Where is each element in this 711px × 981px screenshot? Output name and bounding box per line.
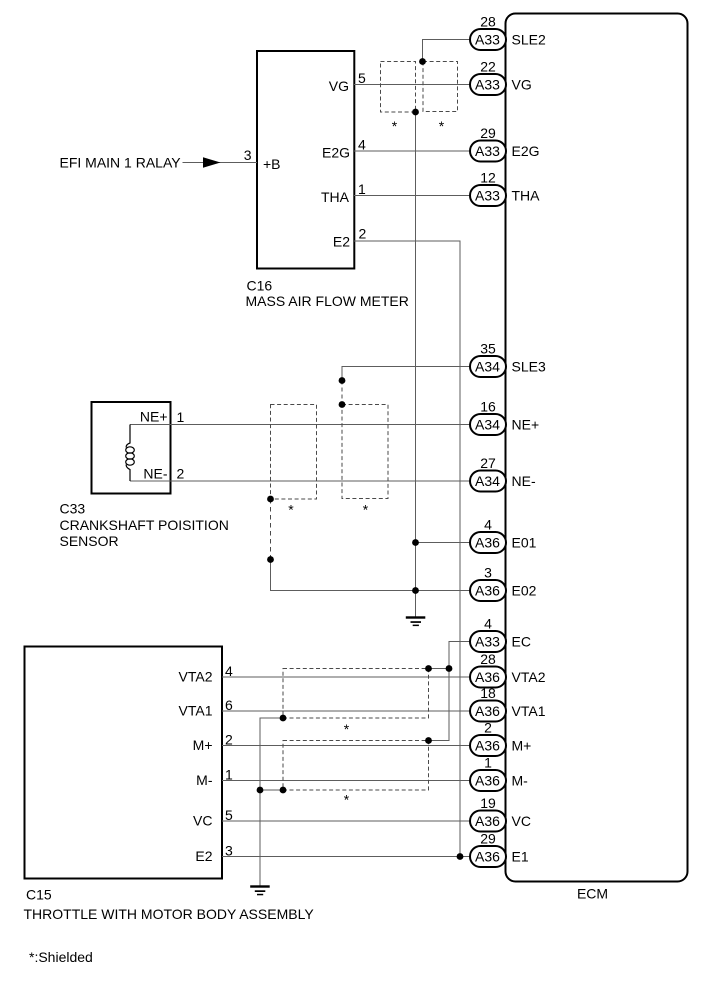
svg-text:2: 2 [484, 719, 492, 735]
svg-text:VC: VC [193, 812, 212, 828]
svg-text:A33: A33 [475, 634, 500, 650]
svg-text:E2G: E2G [322, 145, 350, 161]
svg-text:A36: A36 [475, 813, 500, 829]
coil of crankshaft position sensor [126, 425, 135, 482]
wire E2 of throttle to E1 [222, 856, 470, 858]
wire VC [222, 820, 470, 822]
svg-text:VC: VC [512, 813, 531, 829]
junction M shield corner [425, 737, 432, 744]
svg-text:A34: A34 [475, 417, 500, 433]
ground symbol near E02 [406, 616, 426, 626]
svg-text:VG: VG [512, 77, 532, 93]
crankshaft position sensor box C33 [92, 402, 171, 494]
connector A34 pin 35 SLE3 [470, 340, 546, 377]
shield box around NE wires left [271, 405, 317, 500]
svg-text:A36: A36 [475, 773, 500, 789]
svg-text:A33: A33 [475, 143, 500, 159]
shield box around NE wires right [342, 405, 388, 499]
svg-text:MASS AIR FLOW METER: MASS AIR FLOW METER [246, 293, 409, 309]
svg-text:4: 4 [484, 615, 492, 631]
connector A36 pin 3 E02 [470, 564, 537, 601]
wire EC branch to upper shield corner [429, 668, 450, 670]
svg-text:*: * [344, 721, 350, 737]
wire M- [222, 780, 470, 782]
svg-text:1: 1 [177, 409, 185, 425]
junction VTA shield drain [280, 715, 287, 722]
svg-text:M-: M- [196, 772, 213, 788]
connector A33 pin 29 E2G [470, 125, 540, 162]
svg-text:A33: A33 [475, 188, 500, 204]
svg-text:C16: C16 [247, 278, 273, 294]
svg-text:6: 6 [225, 697, 233, 713]
svg-text:VTA2: VTA2 [179, 668, 213, 684]
shield box around VG wire right [423, 62, 458, 112]
svg-text:C33: C33 [60, 501, 86, 517]
svg-text:VTA1: VTA1 [512, 703, 546, 719]
svg-text:E2: E2 [333, 234, 350, 250]
shield box around VG wire left [381, 62, 416, 113]
svg-text:22: 22 [480, 58, 496, 74]
connector A36 pin 1 M- [470, 754, 528, 791]
wire VTA1 [222, 710, 470, 712]
svg-text:28: 28 [480, 13, 496, 29]
svg-text:5: 5 [358, 70, 366, 86]
svg-text:27: 27 [480, 455, 496, 471]
wire E01 [416, 542, 471, 544]
connector A36 pin 18 VTA1 [470, 685, 546, 722]
svg-text:E1: E1 [512, 849, 529, 865]
wire NE+ [130, 424, 470, 426]
wire SLE3 to shield [342, 367, 470, 381]
throttle with motor body assembly box C15 [25, 647, 223, 879]
svg-text:VG: VG [329, 78, 349, 94]
svg-text:SLE2: SLE2 [512, 32, 546, 48]
svg-text:29: 29 [480, 830, 496, 846]
svg-text:A36: A36 [475, 703, 500, 719]
junction NE shield corner [339, 401, 346, 408]
svg-text:*:Shielded: *:Shielded [29, 949, 93, 965]
wire E2 of MAF down to E1 junction [354, 241, 460, 857]
svg-text:3: 3 [484, 564, 492, 580]
svg-text:A36: A36 [475, 583, 500, 599]
svg-text:A33: A33 [475, 32, 500, 48]
shield box around VTA wires [283, 669, 429, 719]
svg-text:THA: THA [321, 189, 350, 205]
svg-text:28: 28 [480, 651, 496, 667]
svg-text:5: 5 [225, 807, 233, 823]
svg-text:*: * [344, 792, 350, 808]
svg-text:E2: E2 [195, 848, 212, 864]
junction E2 E1 [457, 853, 464, 860]
svg-text:*: * [363, 502, 369, 518]
junction NE shield lower corner [267, 496, 274, 503]
svg-text:*: * [392, 118, 398, 134]
wire M+ [222, 745, 470, 747]
svg-text:*: * [288, 502, 294, 518]
shield drain branch lower shield [260, 789, 283, 791]
ECM box [506, 14, 688, 882]
svg-text:A36: A36 [475, 535, 500, 551]
svg-text:A34: A34 [475, 473, 500, 489]
connector A34 pin 16 NE+ [470, 398, 539, 435]
connector A33 pin 12 THA [470, 169, 540, 206]
svg-text:A34: A34 [475, 359, 500, 375]
svg-text:VTA1: VTA1 [179, 702, 213, 718]
wire VG [354, 84, 470, 86]
svg-text:4: 4 [358, 137, 366, 153]
connector A34 pin 27 NE- [470, 455, 536, 492]
svg-text:E01: E01 [512, 535, 537, 551]
svg-text:2: 2 [177, 466, 185, 482]
svg-text:NE-: NE- [143, 466, 167, 482]
shield box around M wires [283, 741, 429, 791]
svg-text:VTA2: VTA2 [512, 669, 546, 685]
junction VTA shield corner [425, 665, 432, 672]
junction EC wire [446, 665, 453, 672]
svg-text:12: 12 [480, 169, 496, 185]
svg-text:1: 1 [358, 181, 366, 197]
svg-text:3: 3 [225, 843, 233, 859]
svg-text:CRANKSHAFT POISITION: CRANKSHAFT POISITION [60, 517, 229, 533]
wire SLE2 to shield [423, 40, 471, 62]
svg-text:E02: E02 [512, 583, 537, 599]
connector A36 pin 29 E1 [470, 830, 529, 867]
junction drain wire [257, 787, 264, 794]
svg-text:18: 18 [480, 685, 496, 701]
svg-text:A33: A33 [475, 77, 500, 93]
svg-text:M-: M- [512, 773, 529, 789]
junction SLE2 shield [419, 58, 426, 65]
arrow EFI MAIN 1 RALAY [203, 157, 221, 168]
svg-text:NE-: NE- [512, 473, 536, 489]
wire EC to shields of VTA/M wires [429, 642, 471, 741]
wire EFI MAIN 1 RALAY to +B [183, 162, 258, 164]
wire E2G [354, 150, 470, 152]
svg-text:EC: EC [512, 634, 531, 650]
svg-text:SENSOR: SENSOR [60, 533, 119, 549]
ground symbol near throttle [250, 885, 270, 895]
svg-text:A36: A36 [475, 669, 500, 685]
svg-text:EFI MAIN 1 RALAY: EFI MAIN 1 RALAY [60, 155, 182, 171]
svg-text:*: * [439, 118, 445, 134]
svg-text:16: 16 [480, 398, 496, 414]
svg-text:ECM: ECM [577, 886, 608, 902]
svg-text:M+: M+ [512, 738, 532, 754]
svg-text:THROTTLE WITH MOTOR BODY ASSEM: THROTTLE WITH MOTOR BODY ASSEMBLY [24, 906, 315, 922]
shield drain wire of VTA/M shields to ground [260, 718, 283, 886]
junction M shield drain [280, 787, 287, 794]
svg-text:C15: C15 [26, 887, 52, 903]
svg-text:1: 1 [484, 754, 492, 770]
connector A36 pin 2 M+ [470, 719, 531, 756]
svg-text:E2G: E2G [512, 143, 540, 159]
svg-text:2: 2 [359, 226, 367, 242]
connector A33 pin 28 SLE2 [470, 13, 546, 50]
svg-text:4: 4 [225, 663, 233, 679]
svg-text:1: 1 [225, 767, 233, 783]
wire VTA2 [222, 676, 470, 678]
svg-text:+B: +B [263, 156, 281, 172]
junction E01 [412, 539, 419, 546]
svg-text:2: 2 [225, 732, 233, 748]
wire NE- [130, 480, 470, 482]
connector A36 pin 4 E01 [470, 516, 537, 553]
svg-text:3: 3 [244, 147, 252, 163]
dashed drain SLE3 shield [341, 381, 343, 405]
connector A36 pin 19 VC [470, 795, 531, 832]
svg-text:NE+: NE+ [512, 417, 540, 433]
svg-text:35: 35 [480, 340, 496, 356]
svg-text:THA: THA [512, 188, 541, 204]
connector A33 pin 4 EC [470, 615, 531, 652]
svg-text:A36: A36 [475, 738, 500, 754]
wire E02 from shield drain [271, 560, 471, 591]
svg-text:NE+: NE+ [140, 409, 168, 425]
svg-text:19: 19 [480, 795, 496, 811]
shield drain wire top to ground [415, 112, 417, 617]
connector A33 pin 22 VG [470, 58, 532, 95]
junction shield drain top [412, 109, 419, 116]
svg-text:SLE3: SLE3 [512, 359, 546, 375]
junction SLE3 wire end [339, 377, 346, 384]
svg-text:A36: A36 [475, 849, 500, 865]
junction E02 [412, 587, 419, 594]
svg-text:M+: M+ [193, 737, 213, 753]
svg-text:29: 29 [480, 125, 496, 141]
mass air flow meter box C16 [257, 51, 354, 269]
junction drain to E02 [267, 556, 274, 563]
svg-text:4: 4 [484, 516, 492, 532]
connector A36 pin 28 VTA2 [470, 651, 546, 688]
wire THA [354, 195, 470, 197]
dashed drain NE shield to E02 [270, 499, 272, 560]
